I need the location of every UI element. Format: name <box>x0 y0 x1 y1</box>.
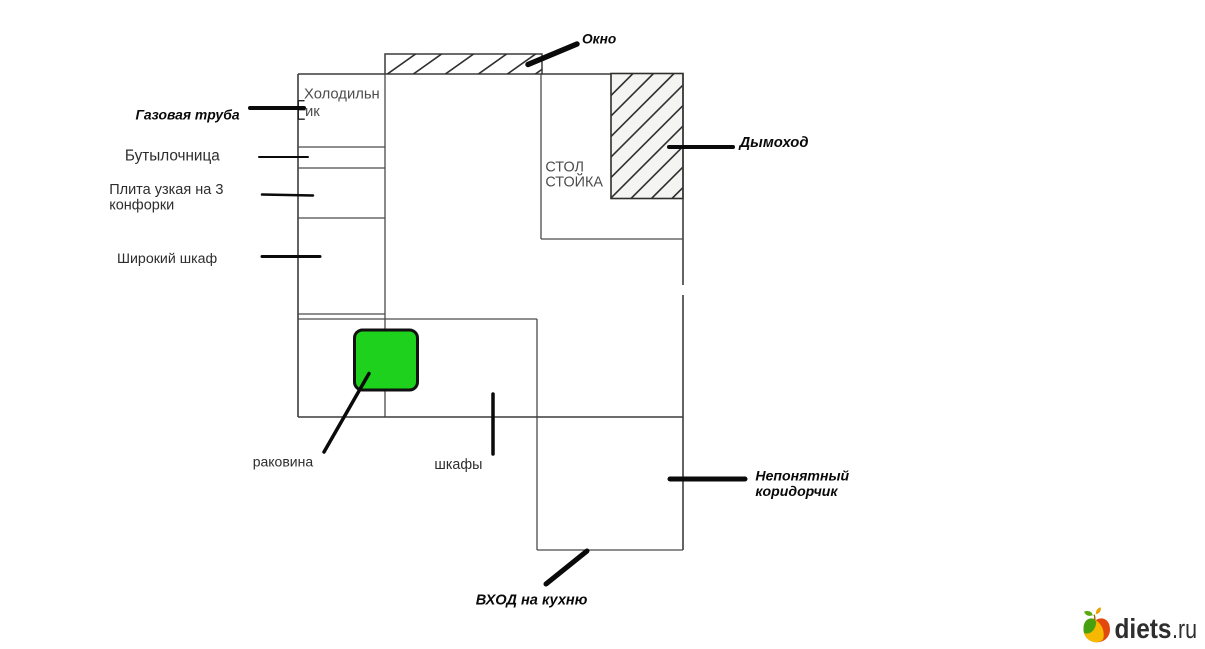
svg-text:Окно: Окно <box>582 32 616 47</box>
stol room bottom wall <box>541 238 683 240</box>
orange leaf <box>1096 607 1101 614</box>
pointer gas pipe <box>250 106 304 110</box>
svg-text:ВХОД на кухню: ВХОД на кухню <box>476 593 588 609</box>
pointer rakovina <box>324 374 369 453</box>
svg-text:СТОЙКА: СТОЙКА <box>545 172 603 190</box>
svg-text:.ru: .ru <box>1172 614 1197 644</box>
wire right outer wall lower <box>682 295 684 550</box>
counter box top <box>298 318 537 320</box>
wire left outer wall <box>297 74 299 417</box>
shelf line 2 <box>298 167 385 169</box>
svg-text:Плита узкая на 3: Плита узкая на 3 <box>109 182 223 198</box>
shelf line 3 <box>298 217 385 219</box>
stol room left wall <box>540 74 542 239</box>
pointer shkafy <box>491 394 495 454</box>
bottom long wall <box>298 416 683 418</box>
shelf line 4 <box>298 313 385 315</box>
pointer koridor <box>670 477 745 482</box>
pointer vkhod <box>546 551 587 584</box>
apple body yellow center <box>1084 619 1104 643</box>
svg-text:коридорчик: коридорчик <box>755 483 838 499</box>
svg-text:Непонятный: Непонятный <box>755 468 849 484</box>
svg-text:шкафы: шкафы <box>434 457 482 473</box>
diets.ru logo <box>1084 607 1198 644</box>
corridor bottom wall <box>537 549 683 551</box>
pointer butylochnitsa <box>259 156 308 158</box>
window strip rectangle <box>385 54 542 74</box>
apple stem <box>1093 615 1096 620</box>
wire right outer wall upper <box>682 74 684 285</box>
svg-text:Дымоход: Дымоход <box>738 135 809 151</box>
chimney hatched box <box>611 74 683 199</box>
apple body red right <box>1084 618 1111 642</box>
apple body green upper-left <box>1084 619 1097 634</box>
counter box right / corridor left wall <box>536 319 538 550</box>
svg-text:конфорки: конфорки <box>109 198 174 214</box>
svg-text:ик: ик <box>305 104 320 120</box>
svg-text:Широкий шкаф: Широкий шкаф <box>117 251 217 267</box>
svg-text:Бутылочница: Бутылочница <box>125 147 220 164</box>
svg-text:СТОЛ: СТОЛ <box>545 160 584 176</box>
svg-text:Газовая труба: Газовая труба <box>136 107 240 123</box>
pointer plita <box>262 195 313 196</box>
svg-text:Холодильн: Холодильн <box>304 87 380 103</box>
svg-text:diets: diets <box>1115 613 1172 644</box>
bracket marks at gas pipe connection <box>298 101 305 120</box>
pointer shirokiy shkaf <box>262 255 320 258</box>
sink green square <box>355 330 418 390</box>
svg-text:раковина: раковина <box>253 454 314 470</box>
wire top wall right segment <box>542 73 611 75</box>
wire top wall left segment <box>298 73 385 75</box>
window hatch <box>386 53 565 75</box>
interior vertical wall x385 <box>384 74 386 417</box>
fridge shelf line 1 <box>298 146 385 148</box>
green leaf <box>1084 611 1093 616</box>
pointer okno <box>528 44 577 65</box>
pointer dymokhod <box>669 145 733 149</box>
